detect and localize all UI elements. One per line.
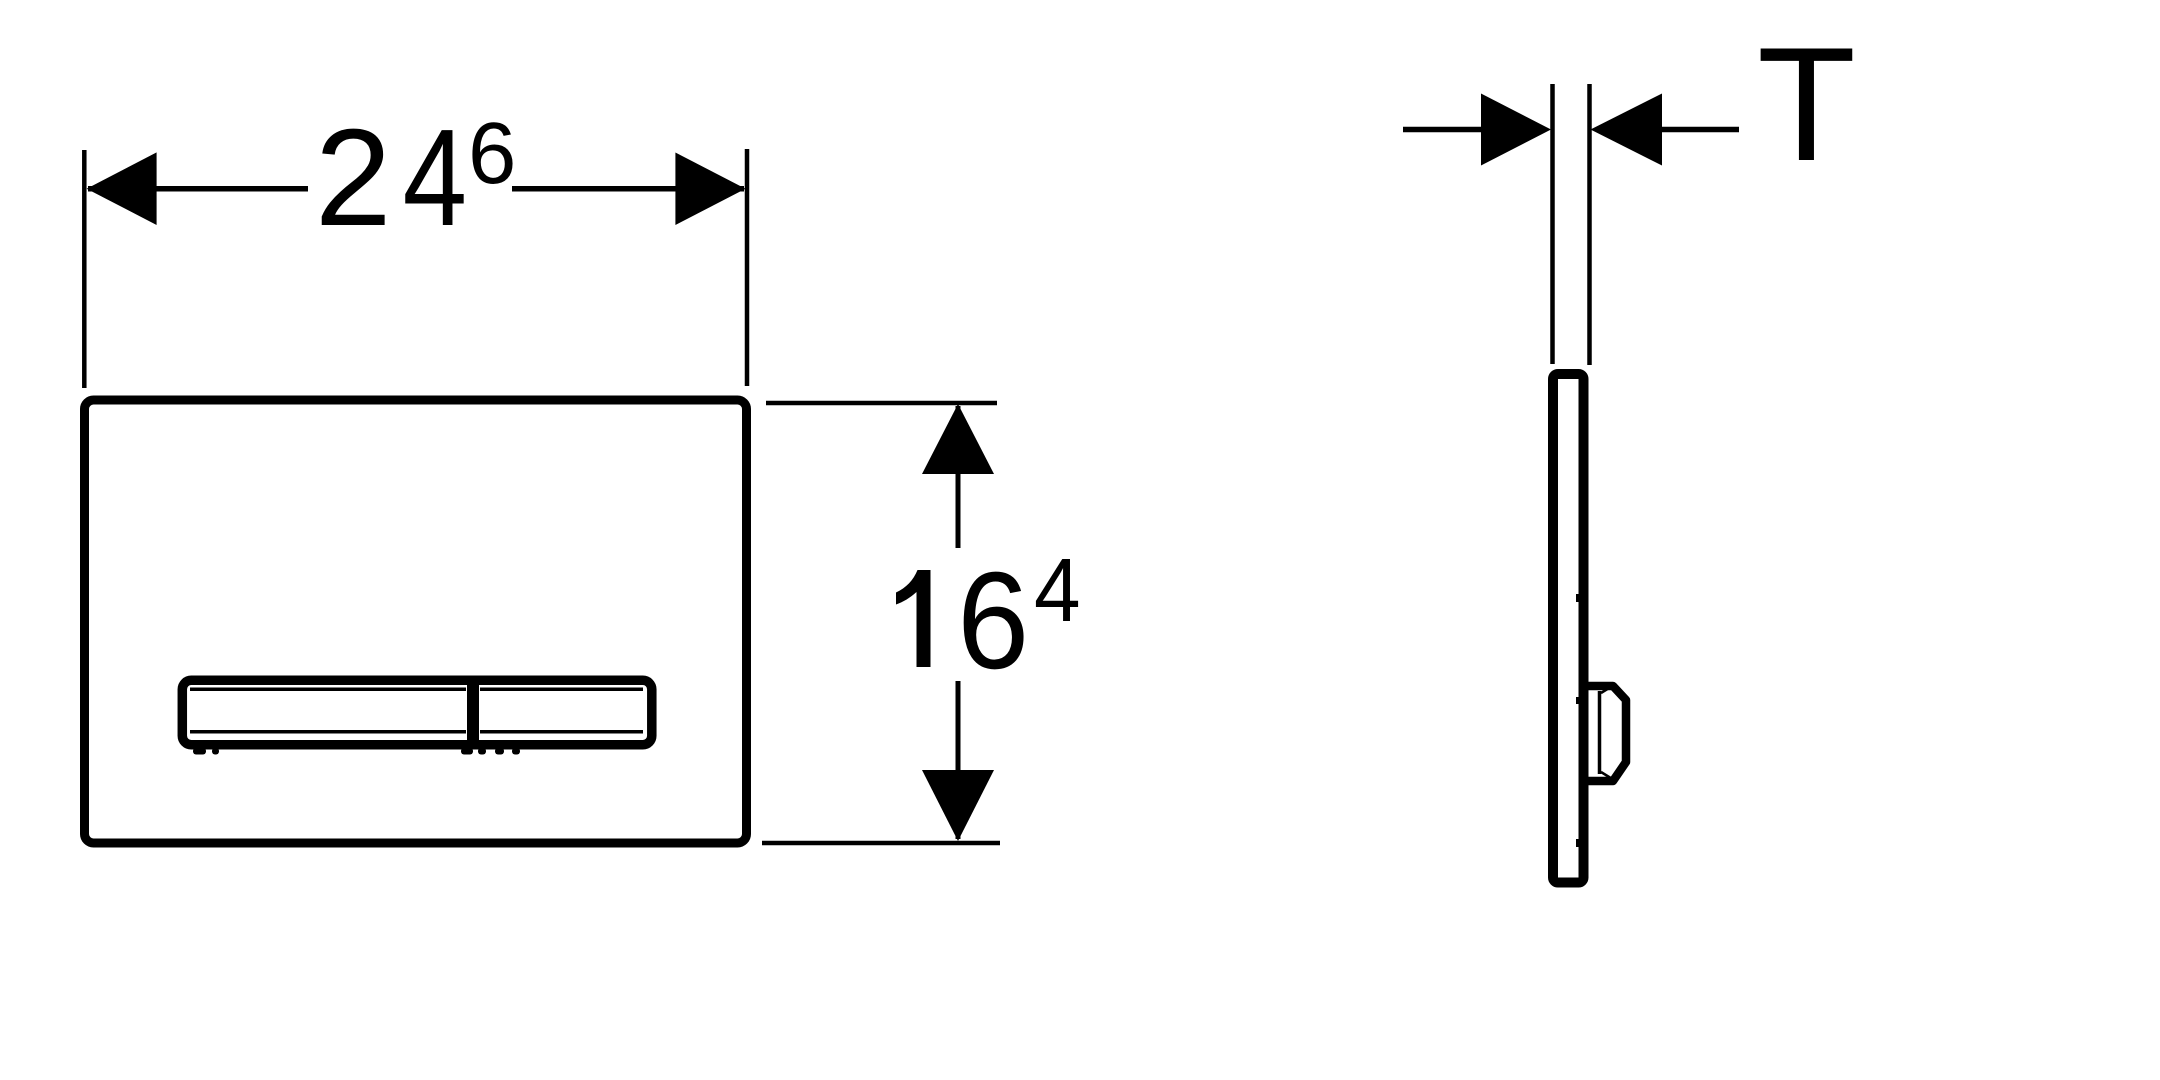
svg-text:6: 6 — [957, 544, 1029, 698]
svg-text:T: T — [1757, 14, 1856, 195]
svg-text:4: 4 — [1034, 540, 1081, 640]
svg-text:2: 2 — [315, 101, 392, 255]
svg-text:6: 6 — [468, 105, 516, 202]
svg-text:4: 4 — [403, 102, 467, 256]
